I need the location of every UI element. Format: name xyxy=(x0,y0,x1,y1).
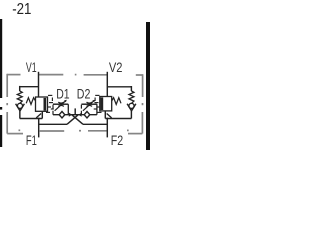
svg-text:D1: D1 xyxy=(56,86,70,102)
svg-text:-21: -21 xyxy=(12,1,31,18)
svg-text:F2: F2 xyxy=(111,132,124,148)
svg-text:V2: V2 xyxy=(109,59,123,75)
svg-text:V1: V1 xyxy=(26,59,37,75)
svg-text:D2: D2 xyxy=(77,86,91,102)
svg-text:F1: F1 xyxy=(26,132,37,148)
